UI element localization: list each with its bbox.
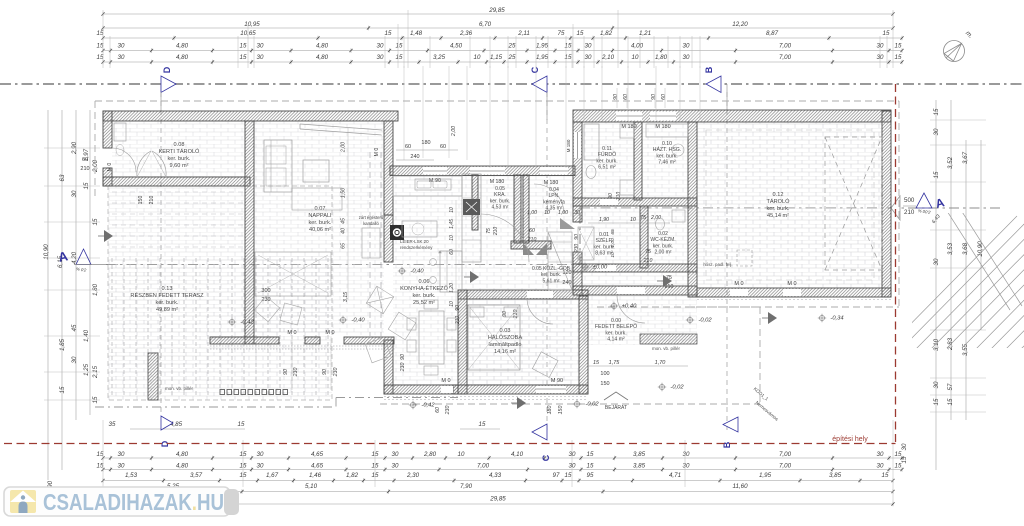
svg-text:15: 15 [372, 451, 379, 458]
svg-text:9,60 m²: 9,60 m² [170, 163, 189, 169]
svg-text:0.06: 0.06 [419, 279, 430, 285]
svg-text:7,00: 7,00 [779, 451, 792, 458]
svg-text:15: 15 [240, 451, 247, 458]
svg-text:-0,42: -0,42 [421, 403, 435, 409]
svg-text:15: 15 [933, 108, 940, 115]
floor: haloszoba [467, 296, 579, 385]
svg-text:0.00: 0.00 [611, 318, 621, 324]
kitchen north counter [393, 176, 462, 196]
svg-text:30: 30 [569, 463, 576, 470]
svg-text:30: 30 [377, 43, 384, 50]
spot elevation -0,42 [410, 402, 415, 407]
svg-text:10: 10 [610, 252, 616, 258]
svg-text:ker. burk.: ker. burk. [155, 300, 178, 306]
wall: house south wall at porch [573, 286, 697, 295]
svg-text:10: 10 [544, 210, 550, 216]
svg-text:30: 30 [257, 463, 264, 470]
wall: KRA east wall [514, 175, 521, 243]
svg-text:30: 30 [877, 451, 884, 458]
wall: szelf wc divider [640, 206, 648, 268]
svg-text:C: C [530, 66, 540, 73]
svg-text:15: 15 [883, 30, 890, 37]
svg-text:7,00: 7,00 [779, 54, 792, 61]
svg-text:10: 10 [630, 217, 636, 223]
bejárat label [604, 392, 628, 400]
door swing bedroom [527, 298, 553, 324]
spot elevation -0,42 [229, 319, 234, 324]
svg-text:30: 30 [71, 356, 78, 363]
svg-text:3,85: 3,85 [633, 451, 646, 458]
svg-text:1,20: 1,20 [449, 283, 455, 293]
floor: hazt hsg [642, 122, 688, 198]
svg-text:10,90: 10,90 [977, 241, 984, 257]
svg-text:M 180: M 180 [544, 180, 559, 186]
svg-text:90: 90 [608, 193, 614, 199]
svg-text:15: 15 [565, 54, 572, 61]
svg-text:90: 90 [322, 369, 328, 375]
floor: fedett belepo [582, 295, 697, 345]
svg-text:95: 95 [587, 472, 594, 479]
slope triangle right [916, 193, 932, 208]
svg-text:75: 75 [645, 249, 651, 255]
svg-text:7,46 m²: 7,46 m² [658, 160, 676, 166]
black slope triangles [517, 397, 526, 409]
svg-text:1,85: 1,85 [59, 338, 66, 351]
svg-text:B: B [722, 441, 732, 448]
svg-text:M 0: M 0 [787, 281, 796, 287]
svg-text:2,36: 2,36 [459, 30, 473, 37]
svg-text:hósz. padl. felj.: hósz. padl. felj. [703, 262, 732, 267]
svg-text:15: 15 [92, 396, 99, 403]
svg-text:1,25: 1,25 [83, 363, 90, 376]
slope marker A left [76, 249, 91, 265]
dining table [419, 311, 444, 364]
svg-text:30: 30 [683, 451, 690, 458]
kitchen counter long [402, 221, 437, 237]
svg-text:kandalló: kandalló [363, 221, 379, 226]
wall: kitchen south wall [384, 385, 458, 394]
svg-text:1,95: 1,95 [759, 472, 772, 479]
svg-text:+0,40: +0,40 [622, 304, 637, 310]
svg-text:laminâltpadló: laminâltpadló [489, 342, 522, 348]
door swing entrance [617, 295, 645, 323]
terrace dashed border [108, 186, 332, 400]
svg-text:1,00: 1,00 [527, 210, 537, 216]
spot elevation -0,02 [659, 384, 664, 389]
svg-text:230: 230 [400, 363, 406, 373]
door swing kitchen big arc [481, 214, 529, 262]
svg-text:90: 90 [502, 311, 508, 317]
svg-text:4,33: 4,33 [489, 472, 502, 479]
kerti tarolo fixture [114, 123, 126, 141]
roof overhang dashed outline [95, 100, 899, 102]
svg-text:30: 30 [877, 54, 884, 61]
svg-text:M 180: M 180 [566, 139, 571, 152]
sofa nappali [264, 140, 292, 192]
svg-text:150: 150 [558, 406, 564, 415]
svg-text:15: 15 [933, 398, 940, 405]
wall: porch pillar bar [640, 334, 697, 344]
svg-text:75: 75 [558, 30, 565, 37]
svg-text:30: 30 [392, 451, 399, 458]
svg-text:29,85: 29,85 [488, 7, 505, 14]
wall: kitchen north wall [390, 166, 575, 176]
svg-text:3,15: 3,15 [343, 292, 349, 302]
svg-text:C: C [541, 454, 551, 461]
wall: hall south wall [511, 241, 551, 249]
svg-text:2,30: 2,30 [406, 472, 420, 479]
svg-text:-0,02: -0,02 [585, 402, 599, 408]
svg-text:230: 230 [333, 368, 339, 378]
wall: bedroom east wall [579, 296, 588, 394]
svg-text:230: 230 [293, 368, 299, 378]
wall: top wall middle and right wing [573, 110, 891, 122]
wall: nappali west wall [245, 121, 254, 344]
pergola dashed lines side yard [112, 191, 243, 193]
svg-text:30: 30 [118, 451, 125, 458]
fireplace [390, 225, 404, 240]
svg-text:ker. burk.: ker. burk. [308, 220, 331, 226]
svg-text:210: 210 [80, 166, 89, 172]
svg-text:97: 97 [553, 472, 560, 479]
svg-text:3,53: 3,53 [947, 242, 954, 255]
svg-text:1,67: 1,67 [266, 472, 279, 479]
svg-text:-0,40: -0,40 [351, 318, 365, 324]
right dimension columns [935, 100, 937, 470]
svg-text:6,70: 6,70 [479, 21, 492, 28]
svg-text:7,90: 7,90 [460, 483, 473, 490]
svg-text:15: 15 [238, 421, 245, 428]
svg-text:15: 15 [396, 43, 403, 50]
svg-text:240: 240 [410, 154, 419, 160]
svg-text:ker. burk.: ker. burk. [653, 243, 674, 249]
svg-text:4,50: 4,50 [450, 43, 463, 50]
svg-text:1,53: 1,53 [125, 472, 138, 479]
wall: bedroom west wall [458, 290, 467, 394]
svg-text:60: 60 [435, 407, 441, 413]
spot elevation -0,02 [574, 401, 579, 406]
svg-text:BEJÁRAT: BEJÁRAT [605, 404, 627, 411]
svg-text:3,55: 3,55 [962, 343, 969, 356]
svg-text:210: 210 [616, 192, 622, 202]
svg-text:1,48: 1,48 [410, 30, 423, 37]
svg-text:1,40: 1,40 [83, 329, 90, 342]
section marker B top [726, 84, 728, 110]
svg-text:ker. burk.: ker. burk. [605, 330, 626, 336]
svg-text:49,89 m²: 49,89 m² [156, 307, 178, 313]
svg-text:30: 30 [933, 128, 940, 135]
svg-text:1,80: 1,80 [92, 283, 99, 296]
north arrow [944, 41, 965, 62]
svg-text:HÁZT. HSG.: HÁZT. HSG. [653, 146, 682, 153]
section marker C bottom [532, 424, 547, 440]
wall: bedroom north wall [458, 290, 588, 299]
svg-text:3,25: 3,25 [433, 54, 446, 61]
svg-text:45,14 m²: 45,14 m² [767, 213, 789, 219]
sill strip below south wall [210, 345, 395, 347]
svg-text:90: 90 [613, 94, 619, 100]
svg-text:1,50: 1,50 [341, 188, 347, 198]
svg-text:±0,00: ±0,00 [593, 265, 608, 271]
svg-text:1,82: 1,82 [346, 472, 359, 479]
svg-text:210: 210 [149, 196, 155, 205]
svg-text:63: 63 [59, 174, 66, 181]
svg-text:2,10: 2,10 [601, 54, 615, 61]
svg-text:60: 60 [529, 228, 535, 234]
svg-text:30: 30 [118, 463, 125, 470]
svg-text:M 180: M 180 [655, 124, 670, 130]
extra top extension lines [403, 66, 405, 160]
svg-text:4,71: 4,71 [669, 472, 681, 479]
svg-text:6,51 m²: 6,51 m² [598, 165, 616, 171]
top extension lines [102, 10, 104, 68]
svg-text:0.05: 0.05 [495, 186, 505, 192]
svg-text:4,10: 4,10 [511, 451, 524, 458]
svg-text:210: 210 [493, 227, 499, 237]
svg-text:15: 15 [83, 182, 90, 189]
svg-text:M 0: M 0 [107, 163, 113, 172]
svg-text:40,06 m²: 40,06 m² [309, 227, 331, 233]
wall: bath divider wall [634, 122, 642, 200]
svg-text:2,00: 2,00 [92, 159, 99, 173]
sofa II nappali [292, 188, 342, 210]
svg-text:30: 30 [683, 54, 690, 61]
svg-text:90: 90 [400, 354, 406, 360]
svg-text:15: 15 [565, 472, 572, 479]
svg-text:1,95: 1,95 [536, 43, 549, 50]
wall: KRA west wall [472, 175, 478, 230]
svg-text:-0,02: -0,02 [698, 318, 712, 324]
svg-text:10: 10 [632, 54, 639, 61]
svg-text:NAPPALI: NAPPALI [308, 213, 332, 219]
svg-text:TÁROLÓ: TÁROLÓ [766, 198, 790, 205]
svg-text:1,15: 1,15 [490, 54, 503, 61]
svg-text:30: 30 [877, 43, 884, 50]
wall: west wall upper [103, 111, 112, 148]
svg-text:90: 90 [283, 369, 289, 375]
svg-text:B: B [704, 66, 714, 73]
svg-text:60: 60 [440, 144, 446, 150]
svg-text:14,16 m²: 14,16 m² [494, 349, 516, 355]
svg-text:3,52: 3,52 [947, 156, 954, 169]
island bench [440, 251, 462, 292]
svg-text:3,85: 3,85 [829, 472, 842, 479]
spot elevation -0,02 [687, 317, 692, 322]
door swing LPN [534, 184, 564, 214]
front door X szelf [578, 227, 594, 260]
wall: nappali east wall pier [384, 215, 393, 262]
svg-text:ker. burk.: ker. burk. [412, 293, 435, 299]
svg-text:4,00: 4,00 [631, 43, 644, 50]
svg-text:1,00: 1,00 [558, 210, 568, 216]
svg-text:rendszerkémény: rendszerkémény [400, 245, 433, 250]
svg-text:15: 15 [240, 54, 247, 61]
X dashed storage [825, 137, 882, 270]
red building site boundary horizontal [4, 443, 896, 445]
svg-text:35: 35 [109, 421, 116, 428]
svg-text:30: 30 [933, 381, 940, 388]
nappali east opening dashed [369, 152, 371, 338]
svg-text:15: 15 [947, 398, 954, 405]
svg-text:FÜRDŐ: FÜRDŐ [598, 151, 616, 158]
svg-text:15: 15 [59, 386, 66, 393]
svg-text:15: 15 [933, 171, 940, 178]
svg-text:1,00: 1,00 [610, 238, 616, 248]
svg-text:45: 45 [341, 218, 347, 224]
svg-text:mon. vb. pillér: mon. vb. pillér [165, 386, 194, 391]
svg-text:15: 15 [240, 472, 247, 479]
svg-text:15: 15 [92, 218, 99, 225]
svg-text:15: 15 [587, 451, 594, 458]
svg-text:15: 15 [396, 54, 403, 61]
svg-text:10,90: 10,90 [43, 244, 50, 260]
svg-text:30: 30 [683, 43, 690, 50]
svg-text:15: 15 [587, 463, 594, 470]
svg-text:60: 60 [405, 144, 411, 150]
floor: side yard [108, 186, 245, 256]
floor: konyha-etkezo [393, 175, 573, 385]
wall: west wall lower [103, 168, 112, 186]
floor: kerti tarolo [112, 121, 245, 177]
window sills south [384, 396, 588, 398]
svg-text:KONYHA-ÉTKEZŐ: KONYHA-ÉTKEZŐ [400, 285, 449, 292]
svg-text:150: 150 [600, 381, 609, 387]
svg-text:0.13: 0.13 [162, 286, 173, 292]
door swing tarolo double [137, 151, 166, 177]
svg-text:65: 65 [341, 243, 347, 249]
svg-text:45: 45 [71, 324, 78, 331]
svg-text:-0,02: -0,02 [670, 385, 684, 391]
svg-text:75: 75 [486, 228, 492, 234]
svg-text:ker. burk.: ker. burk. [656, 153, 677, 159]
hall door triangles [523, 243, 534, 255]
section line D vertical [160, 92, 162, 416]
svg-text:25: 25 [508, 54, 516, 61]
svg-text:180: 180 [547, 406, 553, 415]
section marker D bottom [161, 416, 173, 430]
bed [468, 305, 520, 370]
wall: bedroom south wall [453, 385, 588, 394]
floor: tarolo [697, 122, 882, 288]
svg-text:M 90: M 90 [551, 378, 563, 384]
section marker A right [891, 196, 900, 220]
svg-text:210: 210 [527, 237, 537, 243]
svg-text:4,80: 4,80 [316, 54, 329, 61]
svg-text:75: 75 [640, 215, 646, 221]
svg-text:KERTI TÁROLÓ: KERTI TÁROLÓ [159, 148, 200, 155]
svg-text:4,53 m²: 4,53 m² [492, 205, 509, 211]
svg-text:4,80: 4,80 [176, 54, 189, 61]
svg-text:HÁLÓSZOBA: HÁLÓSZOBA [488, 334, 522, 341]
svg-text:7,00: 7,00 [779, 463, 792, 470]
svg-text:30: 30 [377, 54, 384, 61]
svg-text:4,80: 4,80 [176, 451, 189, 458]
terrace pillars row [220, 390, 225, 395]
logo house icon [10, 490, 36, 513]
svg-text:2,00: 2,00 [451, 126, 457, 137]
wall: tarolo west wall [688, 122, 697, 297]
svg-text:1,46: 1,46 [309, 472, 322, 479]
svg-text:1,95: 1,95 [536, 54, 549, 61]
wall: LPN west wall [523, 175, 529, 243]
svg-text:210: 210 [643, 258, 653, 264]
svg-text:11,60: 11,60 [732, 483, 748, 490]
section marker C top [546, 84, 548, 120]
svg-text:5,10: 5,10 [305, 483, 318, 490]
section line horizontal dash-dot y84 [0, 83, 1024, 85]
section line A (stepped dash-dot) [106, 264, 580, 266]
svg-text:100: 100 [600, 371, 609, 377]
red building site boundary vertical [895, 84, 897, 444]
hazt fixtures [646, 124, 688, 137]
svg-text:15: 15 [372, 463, 379, 470]
svg-text:4,80: 4,80 [316, 43, 329, 50]
svg-text:RÉSZBEN FEDETT TERASZ: RÉSZBEN FEDETT TERASZ [130, 292, 204, 299]
wall: bath south wall [573, 198, 697, 206]
svg-text:M 0: M 0 [374, 148, 380, 157]
wall: middle west wall lower [573, 252, 582, 295]
terrace pillar [148, 353, 158, 400]
spot elevation +0,40 [611, 303, 616, 308]
left dimension columns [47, 110, 49, 480]
svg-text:15: 15 [240, 43, 247, 50]
svg-text:90: 90 [455, 305, 461, 311]
svg-text:SZÉLF.: SZÉLF. [595, 237, 612, 244]
armchairs diagonal [365, 286, 416, 363]
svg-text:1,82: 1,82 [600, 30, 613, 37]
svg-text:-0,42: -0,42 [240, 320, 254, 326]
svg-text:4,14 m²: 4,14 m² [607, 337, 625, 343]
bottom extension lines [102, 420, 104, 503]
svg-text:M 0: M 0 [287, 330, 296, 336]
terrace vertical dashes [111, 258, 113, 396]
svg-text:2,80: 2,80 [423, 451, 437, 458]
svg-text:10: 10 [458, 451, 465, 458]
svg-text:M 0: M 0 [441, 378, 450, 384]
svg-text:180: 180 [421, 140, 430, 146]
svg-text:0.10: 0.10 [662, 141, 672, 147]
svg-text:15: 15 [882, 472, 889, 479]
svg-text:CSALADIHAZAK.HU: CSALADIHAZAK.HU [43, 489, 224, 515]
svg-text:90: 90 [651, 94, 657, 100]
svg-text:0.02: 0.02 [658, 231, 668, 237]
svg-text:30: 30 [118, 43, 125, 50]
wall: tarolo east wall [882, 111, 891, 297]
chair rotated bedroom [532, 352, 558, 378]
svg-text:1,90: 1,90 [599, 217, 609, 223]
logo box csaladihazak.hu [4, 487, 230, 516]
svg-text:KRA.: KRA. [494, 192, 506, 198]
svg-text:5,61 m²: 5,61 m² [543, 278, 560, 284]
kitchen east cabinetry [462, 174, 481, 262]
svg-text:2,11: 2,11 [517, 30, 530, 37]
svg-text:8,87: 8,87 [766, 30, 779, 37]
svg-text:M 0: M 0 [325, 330, 334, 336]
svg-text:1,21: 1,21 [639, 30, 651, 37]
svg-text:4,80: 4,80 [176, 43, 189, 50]
section marker B bottom [723, 417, 738, 432]
svg-text:30: 30 [585, 54, 592, 61]
wall: middle west wall upper [573, 122, 582, 222]
svg-text:M 0: M 0 [734, 281, 743, 287]
svg-text:30: 30 [877, 463, 884, 470]
spot elevation ±0,00 [582, 264, 587, 269]
floor: terasz [108, 256, 332, 400]
svg-text:500: 500 [904, 197, 915, 204]
svg-text:építési hely: építési hely [832, 436, 868, 443]
svg-text:30: 30 [392, 463, 399, 470]
wc fixture [656, 218, 665, 230]
